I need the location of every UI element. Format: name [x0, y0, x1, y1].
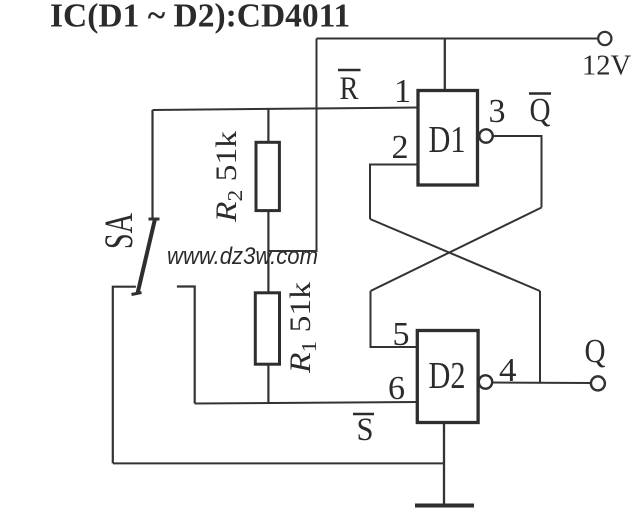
svg-text:R2 51k: R2 51k: [210, 131, 247, 223]
terminal: 12V: [598, 32, 611, 45]
switch SA pole wire: [151, 110, 153, 219]
wire: S-bar line to D2 pin 6: [195, 402, 417, 404]
svg-text:R1 51k: R1 51k: [284, 282, 321, 374]
svg-text:S: S: [357, 412, 374, 448]
resistor R2 body: [256, 142, 279, 210]
wire: D2 ground feed: [443, 423, 445, 505]
resistor R1 body: [255, 293, 279, 364]
NAND gate D2 box: [417, 331, 478, 423]
wire: D1 power feed: [444, 39, 446, 93]
wire: ground return line: [113, 462, 444, 464]
switch SA pivot tick: [149, 218, 160, 221]
wire: R-bar line to D1 pin 1: [153, 108, 418, 111]
svg-text:IC(D1 ~ D2):CD4011: IC(D1 ~ D2):CD4011: [50, 0, 350, 35]
gate D2 output bubble: [479, 375, 492, 388]
label S-bar overline: [353, 413, 374, 415]
wire: D1 pin 2 cross-couple vertical: [370, 165, 417, 220]
svg-text:12V: 12V: [582, 51, 632, 82]
svg-text:5: 5: [393, 316, 410, 353]
wire: down to D2 output node: [539, 291, 541, 383]
svg-text:2: 2: [392, 129, 409, 166]
wire: diagonal from D1 output down to D2 pin5 path: [371, 208, 542, 292]
switch contact to S-bar: [177, 287, 195, 404]
wire: diagonal from D2 output up to D1 pin2 path: [370, 219, 540, 291]
label Q-bar overline: [529, 92, 551, 94]
NAND gate D1 box: [418, 91, 478, 186]
wire: down to D2 pin 5: [371, 291, 418, 347]
switch SA blade foot: [132, 293, 142, 295]
switch contact to ground: [113, 287, 136, 464]
terminal: Q output: [591, 376, 605, 390]
switch SA blade: [138, 219, 156, 294]
svg-text:www.dz3w.com: www.dz3w.com: [167, 243, 318, 270]
svg-text:3: 3: [489, 93, 506, 130]
svg-text:Q: Q: [585, 333, 606, 370]
wire: R1 bottom to S-bar line: [267, 364, 269, 403]
ground bar: [415, 504, 474, 508]
svg-text:D1: D1: [429, 119, 466, 161]
svg-text:1: 1: [394, 73, 411, 110]
svg-text:D2: D2: [429, 355, 466, 397]
wire: R2 bottom to R1 top: [267, 211, 269, 293]
wire: +12V top rail: [317, 38, 599, 40]
wire: D1 pin 3 output to cross corner: [493, 136, 542, 208]
wire: D2 pin 4 output to Q terminal: [492, 382, 592, 385]
label R-bar overline: [338, 69, 361, 71]
svg-text:Q: Q: [530, 92, 551, 129]
svg-text:R: R: [340, 71, 359, 107]
gate D1 output bubble: [479, 129, 492, 142]
wire: 12V feed down to R2 bottom node: [268, 39, 317, 252]
wire: R2 top to R-bar line: [267, 109, 269, 143]
svg-text:SA: SA: [96, 213, 141, 249]
